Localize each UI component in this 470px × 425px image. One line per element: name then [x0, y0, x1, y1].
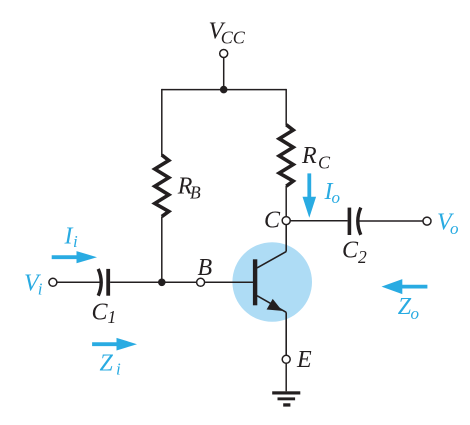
- capacitor C2: [348, 208, 361, 235]
- power terminal VCC: [220, 50, 228, 58]
- svg-text:E: E: [296, 347, 312, 373]
- label Vo: [437, 210, 459, 238]
- resistor RC: [279, 125, 293, 187]
- transistor highlight circle: [232, 242, 312, 322]
- label RC: [301, 143, 331, 172]
- resistor RB: [155, 155, 169, 217]
- impedance arrow Zi: [92, 338, 137, 351]
- svg-text:I: I: [64, 223, 74, 249]
- output terminal Vo: [423, 217, 431, 225]
- wire emitter down: [285, 312, 287, 355]
- input terminal Vi: [49, 278, 57, 286]
- svg-text:C: C: [264, 207, 281, 233]
- wire node C to collector bend: [285, 225, 287, 252]
- label Vi: [24, 270, 43, 298]
- node E terminal: [282, 355, 290, 363]
- wire right branch upper: [285, 89, 287, 125]
- capacitor C1: [98, 269, 110, 296]
- svg-text:Z: Z: [100, 350, 114, 376]
- junction base node: [158, 279, 166, 287]
- label VCC: [209, 19, 246, 48]
- svg-text:CC: CC: [221, 27, 246, 47]
- svg-text:B: B: [190, 183, 201, 203]
- wire left branch lower: [161, 217, 163, 283]
- junction top rail: [220, 86, 228, 94]
- label Io: [324, 179, 341, 207]
- wire top rail: [162, 89, 286, 91]
- wire left branch upper: [161, 89, 163, 156]
- wire E to ground: [285, 363, 287, 391]
- svg-text:C: C: [318, 152, 331, 172]
- svg-text:o: o: [332, 188, 341, 207]
- wire C2 to output: [360, 220, 424, 222]
- wire RC to node C: [285, 186, 287, 217]
- wire node C to C2: [290, 220, 347, 222]
- svg-text:B: B: [198, 255, 213, 281]
- current arrow Io: [303, 173, 317, 217]
- transistor Q1: [253, 252, 286, 313]
- ground: [272, 391, 300, 406]
- svg-text:C: C: [342, 238, 359, 264]
- svg-text:C: C: [92, 300, 109, 326]
- svg-text:i: i: [116, 359, 121, 378]
- label RB: [177, 174, 201, 203]
- node B terminal: [197, 278, 205, 286]
- wire input to C1: [57, 281, 100, 283]
- current arrow Ii: [52, 251, 97, 263]
- svg-text:i: i: [73, 232, 78, 251]
- svg-text:R: R: [301, 143, 317, 169]
- label Zo: [398, 294, 419, 323]
- svg-text:o: o: [411, 304, 420, 323]
- wire C1 to base: [110, 281, 253, 283]
- svg-text:2: 2: [358, 247, 367, 267]
- label Zi: [100, 350, 122, 378]
- svg-text:o: o: [450, 219, 459, 238]
- svg-text:1: 1: [108, 307, 117, 327]
- label Ii: [64, 223, 79, 251]
- svg-text:i: i: [38, 280, 43, 299]
- label C2: [342, 238, 367, 267]
- node C terminal: [282, 217, 290, 225]
- label C1: [92, 300, 117, 328]
- wire VCC terminal to top rail: [223, 58, 225, 90]
- impedance arrow Zo: [382, 279, 428, 294]
